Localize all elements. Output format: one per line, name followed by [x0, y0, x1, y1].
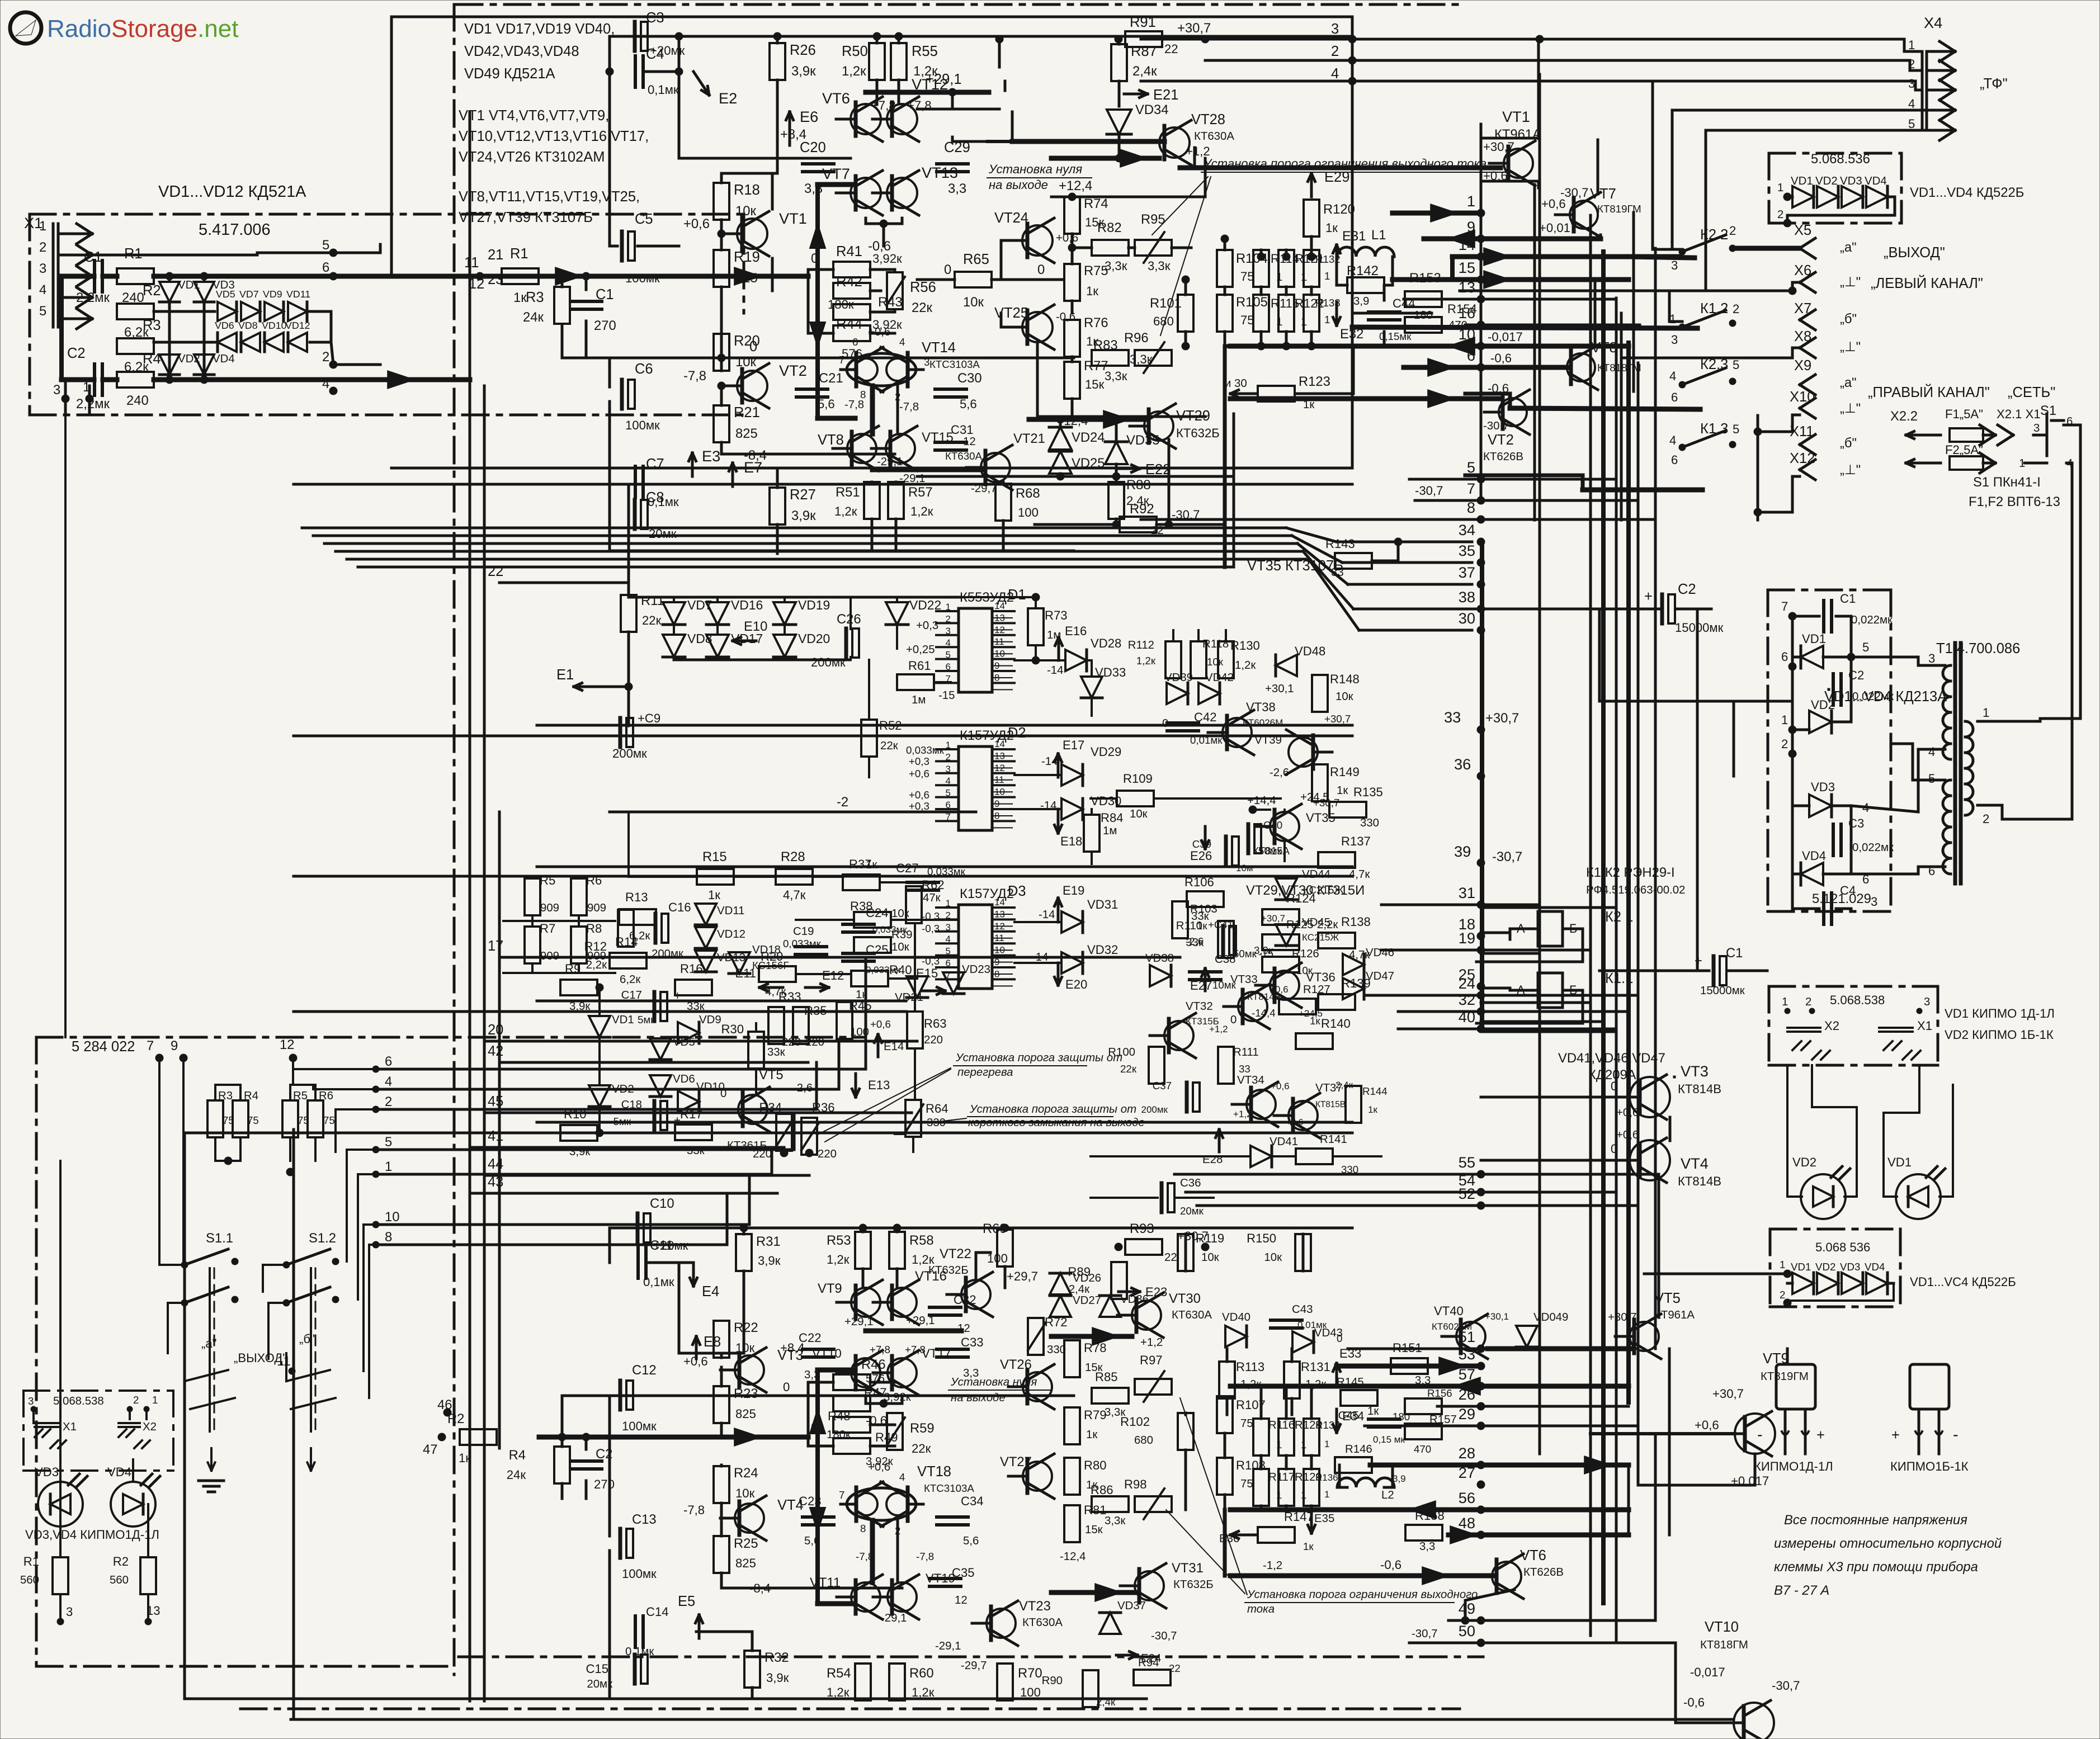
svg-text:21: 21	[488, 247, 503, 263]
wire trunk x812 dash-dot	[453, 4, 456, 1675]
svg-text:VD1: VD1	[1887, 1155, 1912, 1169]
transistor VT14 dual	[847, 353, 916, 386]
transistor VT4	[735, 1504, 764, 1533]
svg-text:22: 22	[1169, 1662, 1181, 1674]
svg-text:100: 100	[1020, 1685, 1041, 1699]
svg-text:1к: 1к	[1086, 1429, 1098, 1441]
svg-text:55: 55	[1459, 1154, 1475, 1171]
svg-text:VD9: VD9	[699, 1014, 721, 1026]
wire VT1 collector	[771, 173, 774, 209]
svg-text:C15: C15	[586, 1662, 608, 1676]
diode VD32	[1061, 952, 1083, 974]
svg-text:75: 75	[323, 1114, 335, 1126]
svg-text:„ТФ": „ТФ"	[1980, 76, 2008, 92]
svg-text:Е1: Е1	[556, 667, 574, 683]
wire bottom rail y2196	[610, 1227, 1352, 1230]
resistor R30	[748, 1032, 764, 1069]
svg-text:+0,6: +0,6	[683, 1354, 708, 1368]
svg-text:680: 680	[1153, 314, 1174, 328]
svg-text:75: 75	[1240, 270, 1254, 283]
wire trunk x840	[469, 112, 471, 1701]
transistor VT29	[1144, 412, 1173, 441]
wire trunk x2867 thick	[1601, 252, 1606, 1603]
wire row VD6-VD12	[154, 341, 215, 344]
capacitor C44	[1368, 310, 1400, 314]
svg-text:7: 7	[946, 811, 951, 822]
transistor VT6 power	[1492, 1562, 1521, 1591]
pot R97	[1135, 1379, 1172, 1395]
wire bus band B	[313, 535, 1292, 537]
svg-text:+30,1: +30,1	[1265, 683, 1294, 695]
svg-text:R28: R28	[781, 849, 805, 864]
svg-text:49: 49	[1459, 1600, 1475, 1617]
diode VD23	[943, 972, 964, 994]
svg-text:R141: R141	[1320, 1133, 1347, 1146]
svg-text:VT7: VT7	[822, 165, 850, 182]
svg-text:10к: 10к	[1296, 965, 1313, 976]
resistor R139	[1318, 994, 1355, 1010]
svg-text:36: 36	[1454, 755, 1471, 773]
wire 2b line	[376, 1108, 817, 1111]
svg-text:-: -	[1953, 1426, 1959, 1444]
wire x1214 b	[678, 1263, 681, 1353]
svg-text:S1.2: S1.2	[309, 1231, 336, 1246]
svg-text:5: 5	[39, 304, 46, 319]
svg-text:1: 1	[1983, 706, 1989, 720]
resistor R132	[1304, 250, 1319, 287]
bus +29,1	[866, 90, 989, 95]
svg-text:Е35: Е35	[1314, 1513, 1334, 1525]
svg-text:VD41,VD46,VD47: VD41,VD46,VD47	[1558, 1051, 1665, 1066]
svg-text:0,022мк: 0,022мк	[1852, 842, 1894, 854]
divider y2007	[537, 1121, 1352, 1124]
svg-text:VT40: VT40	[1434, 1304, 1464, 1318]
svg-text:22к: 22к	[642, 613, 662, 627]
inductor L2	[1337, 1478, 1394, 1487]
pot R96	[1135, 350, 1172, 366]
wire array cols mid	[1260, 1456, 1263, 1469]
arrow E20	[1057, 963, 1060, 985]
resistor R114	[1253, 250, 1269, 287]
resistor R53	[855, 1232, 871, 1269]
svg-text:R156: R156	[1427, 1387, 1452, 1399]
resistor R28	[776, 869, 813, 885]
svg-text:S1.1: S1.1	[206, 1231, 233, 1246]
svg-text:2: 2	[1777, 209, 1783, 221]
wire diode row top	[629, 596, 961, 599]
svg-text:-0,6: -0,6	[1380, 1558, 1401, 1572]
svg-text:VD27: VD27	[1073, 1294, 1101, 1307]
svg-text:К157УД2: К157УД2	[960, 728, 1014, 743]
diode VD2 b	[1817, 1273, 1838, 1294]
svg-text:VD6: VD6	[673, 1073, 695, 1085]
svg-text:5,6: 5,6	[960, 397, 977, 411]
transistor VT11	[851, 1582, 880, 1612]
svg-text:КИПМО1Д-1Л: КИПМО1Д-1Л	[1754, 1459, 1833, 1473]
diode VD6	[218, 333, 237, 352]
svg-text:X2.1 X1: X2.1 X1	[1997, 407, 2041, 421]
resistor R41	[833, 262, 870, 277]
wire bottom right links	[1627, 1465, 1630, 1535]
wire tap5	[1409, 478, 1616, 481]
svg-text:C43: C43	[1292, 1303, 1313, 1316]
svg-text:-29,1: -29,1	[935, 1640, 961, 1652]
resistor R91	[1125, 31, 1162, 47]
svg-text:C8: C8	[646, 490, 664, 505]
svg-text:29: 29	[1459, 1405, 1475, 1423]
svg-text:VD9: VD9	[263, 289, 282, 300]
resistor R52	[861, 720, 877, 757]
resistor R6 75	[308, 1100, 323, 1137]
diode VD1	[1792, 186, 1814, 207]
svg-text:100: 100	[1018, 505, 1039, 519]
resistor R77	[1064, 362, 1080, 399]
arrow E24	[1116, 1654, 1138, 1657]
svg-text:6: 6	[946, 661, 951, 672]
svg-text:R117: R117	[1268, 1471, 1295, 1483]
svg-text:R3: R3	[218, 1090, 233, 1102]
svg-text:-2: -2	[837, 795, 848, 810]
svg-text:RadioStorage.net: RadioStorage.net	[47, 15, 238, 42]
resistor R29	[759, 966, 796, 982]
svg-text:VT1 VT4,VT6,VT7,VT9,: VT1 VT4,VT6,VT7,VT9,	[459, 108, 609, 124]
transistor VT30	[1132, 1301, 1161, 1330]
diode VD11	[288, 302, 307, 321]
svg-text:С38: С38	[1215, 953, 1235, 966]
wire into box536	[1644, 1273, 1787, 1275]
transistor VT8	[847, 434, 876, 463]
svg-text:VD4: VD4	[1865, 1261, 1885, 1273]
diode VD5	[218, 302, 237, 321]
svg-text:R138: R138	[1341, 915, 1371, 929]
transistor VT26	[1023, 1372, 1052, 1401]
svg-text:VT14: VT14	[922, 340, 956, 356]
svg-text:-30,7: -30,7	[1492, 849, 1522, 864]
svg-text:VD42,VD43,VD48: VD42,VD43,VD48	[464, 44, 579, 59]
wire bottom line 2	[291, 1718, 1734, 1721]
svg-text:+0,6: +0,6	[1616, 1129, 1639, 1141]
wire tap16	[1465, 324, 1640, 327]
svg-text:4: 4	[899, 336, 905, 348]
svg-text:VT25: VT25	[994, 305, 1028, 321]
svg-text:2: 2	[1781, 737, 1788, 751]
svg-text:„⊥": „⊥"	[1840, 401, 1861, 416]
svg-text:14: 14	[1459, 236, 1475, 253]
svg-text:R146: R146	[1345, 1443, 1372, 1456]
svg-text:R140: R140	[1321, 1017, 1351, 1031]
wire trunk x2648	[1480, 124, 1483, 500]
svg-text:VD4: VD4	[1865, 175, 1887, 187]
bus 56	[1230, 1508, 1629, 1513]
wire x1090 down	[608, 72, 611, 246]
svg-text:R131: R131	[1301, 1360, 1330, 1374]
wire riser 1420	[793, 1113, 796, 1150]
transistor VT16	[888, 1288, 917, 1317]
svg-text:R76: R76	[1084, 315, 1108, 330]
arrow E23	[1119, 1291, 1140, 1293]
svg-text:C2: C2	[1678, 582, 1696, 597]
transistor VT39	[1289, 738, 1318, 767]
wire bottom-left risers	[64, 415, 67, 1037]
wire 45 line	[376, 1108, 537, 1110]
divider y2026	[185, 1132, 1352, 1135]
capacitor C29	[937, 162, 968, 166]
svg-text:VD42: VD42	[1205, 672, 1234, 684]
svg-text:VD32: VD32	[1087, 943, 1118, 957]
diode VD30	[1061, 798, 1083, 820]
svg-text:3: 3	[946, 626, 951, 636]
resistor R93	[1125, 1239, 1162, 1255]
svg-text:100мк: 100мк	[625, 418, 660, 432]
wire 50 line	[1409, 1642, 1616, 1645]
wire VT9 emitter	[1638, 1454, 1755, 1485]
svg-text:R82: R82	[1097, 220, 1122, 235]
svg-text:Е18: Е18	[1060, 834, 1082, 848]
wire VT20 net	[998, 39, 1001, 67]
svg-text:VD10: VD10	[262, 320, 287, 331]
svg-text:-1,2: -1,2	[1263, 1560, 1282, 1572]
svg-text:24к: 24к	[523, 310, 544, 325]
svg-text:R26: R26	[790, 42, 816, 58]
svg-text:R65: R65	[963, 252, 989, 267]
pot R72	[1028, 1318, 1044, 1355]
svg-text:-7,8: -7,8	[683, 1503, 705, 1517]
svg-text:R54: R54	[827, 1666, 851, 1681]
svg-text:E21: E21	[1153, 87, 1178, 103]
transistor VT40	[1456, 1322, 1485, 1351]
svg-text:909: 909	[587, 902, 606, 914]
svg-text:„ЛЕВЫЙ КАНАЛ": „ЛЕВЫЙ КАНАЛ"	[1871, 275, 1983, 291]
resistor R31	[736, 1234, 752, 1271]
svg-text:3,9: 3,9	[1353, 295, 1369, 308]
svg-text:2: 2	[1331, 44, 1339, 59]
wire X1 pin2 to node5	[78, 253, 333, 255]
capacitor C15	[633, 1655, 637, 1684]
diode VD1	[159, 282, 180, 302]
svg-text:5: 5	[1733, 422, 1739, 436]
svg-text:„а": „а"	[201, 1336, 217, 1350]
svg-text:-7,8: -7,8	[916, 1551, 934, 1562]
transistor VT9	[851, 1288, 880, 1317]
svg-text:Е15: Е15	[916, 966, 938, 980]
svg-text:-0,017: -0,017	[1488, 330, 1523, 344]
resistor R32	[744, 1651, 760, 1688]
resistor R57	[888, 482, 904, 519]
svg-text:C10: C10	[650, 1196, 674, 1211]
wire bottom rail y2026k	[780, 1149, 788, 1157]
svg-text:VD6: VD6	[215, 320, 234, 331]
diode VD34	[1107, 110, 1131, 134]
svg-text:В7 - 27 А: В7 - 27 А	[1774, 1583, 1829, 1598]
resistor R13	[619, 909, 656, 925]
svg-text:-: -	[1757, 1426, 1763, 1444]
svg-text:РФ4.519.063-00.02: РФ4.519.063-00.02	[1586, 884, 1685, 896]
wire 3 line	[1141, 38, 1904, 41]
svg-text:12: 12	[994, 921, 1005, 932]
capacitor C39	[1224, 837, 1228, 866]
svg-text:R97: R97	[1140, 1353, 1163, 1367]
svg-text:VT6: VT6	[1520, 1548, 1546, 1563]
svg-text:R31: R31	[756, 1234, 781, 1249]
svg-text:C22: C22	[799, 1331, 822, 1345]
svg-text:7: 7	[1467, 480, 1475, 497]
svg-text:4: 4	[899, 1471, 905, 1483]
diode VD10	[678, 1091, 699, 1112]
svg-text:3: 3	[1908, 77, 1915, 91]
capacitor C10	[636, 1213, 640, 1242]
svg-text:240: 240	[126, 393, 149, 408]
bus tap9	[1424, 237, 1601, 242]
svg-text:R124: R124	[1286, 891, 1316, 905]
svg-text:16: 16	[1459, 304, 1475, 322]
wire trunk x2650 thick	[1480, 542, 1484, 1029]
svg-text:C33: C33	[961, 1335, 984, 1349]
svg-text:VD1 VD17,VD19 VD40,: VD1 VD17,VD19 VD40,	[464, 21, 615, 37]
diode VD2	[1817, 186, 1838, 207]
svg-text:13: 13	[1459, 278, 1475, 296]
resistor R58	[889, 1232, 905, 1269]
svg-text:470: 470	[1414, 1443, 1431, 1455]
wire row VD5-VD11	[154, 310, 215, 313]
capacitor C2 psu	[1832, 674, 1835, 705]
capacitor C1 15000	[1712, 956, 1716, 985]
svg-text:R74: R74	[1084, 196, 1108, 211]
svg-text:C21: C21	[819, 371, 843, 386]
svg-text:7: 7	[1781, 599, 1788, 613]
svg-text:37: 37	[1459, 564, 1475, 581]
svg-text:12: 12	[280, 1037, 294, 1052]
capacitor C37	[1185, 1083, 1189, 1112]
wire bus 55	[1174, 1173, 1629, 1176]
wire tap31	[1381, 904, 1540, 906]
wire 5b line	[376, 1149, 794, 1151]
svg-text:2: 2	[1908, 57, 1915, 71]
svg-text:VT6: VT6	[822, 89, 850, 107]
transistor VT13	[887, 178, 917, 208]
wire thick input to R network	[800, 274, 808, 279]
svg-text:КТ6026М: КТ6026М	[1243, 717, 1283, 728]
svg-text:33: 33	[1239, 1063, 1250, 1075]
svg-text:180: 180	[1414, 309, 1433, 322]
resistor R1	[117, 268, 154, 284]
transistor VT12	[887, 104, 917, 134]
transistor VT24	[1022, 225, 1053, 256]
svg-text:5,6: 5,6	[963, 1535, 979, 1547]
resistor R140	[1296, 1033, 1333, 1049]
svg-text:R81: R81	[1084, 1503, 1107, 1517]
resistor R127	[1279, 999, 1316, 1014]
svg-text:R23: R23	[734, 1386, 758, 1401]
svg-text:R150: R150	[1247, 1231, 1276, 1245]
svg-text:R1: R1	[23, 1554, 39, 1568]
resistor R60	[889, 1664, 905, 1700]
svg-text:-30,7: -30,7	[1772, 1679, 1800, 1693]
svg-text:R59: R59	[910, 1421, 935, 1436]
svg-text:5.068.536: 5.068.536	[1811, 152, 1870, 167]
wire trunk x2912 thick	[1626, 343, 1631, 1402]
svg-text:1: 1	[1908, 38, 1915, 52]
wire X4 feed 233	[1706, 129, 1936, 132]
inductor L1	[1337, 247, 1394, 257]
diode VD31	[1061, 911, 1083, 933]
svg-text:R75: R75	[1084, 263, 1108, 278]
svg-text:42: 42	[488, 1043, 503, 1059]
resistor R131	[1284, 1362, 1300, 1398]
svg-text:180: 180	[1393, 1411, 1410, 1423]
capacitor C4 psu	[1822, 893, 1825, 924]
arrow E11	[759, 986, 783, 989]
diode VD19	[773, 602, 796, 625]
capacitor C4	[634, 56, 637, 87]
capacitor C13	[619, 1529, 622, 1558]
svg-text:VT38: VT38	[1246, 700, 1276, 714]
transistor VT23	[987, 1609, 1016, 1638]
wire VT5 collector	[1658, 1174, 1660, 1317]
svg-text:VD33: VD33	[1095, 665, 1126, 679]
svg-text:+0,6: +0,6	[868, 326, 890, 338]
resistor R149	[1312, 764, 1328, 801]
svg-text:4: 4	[1908, 97, 1915, 111]
wire k22 bus14	[1629, 257, 1695, 258]
resistor R38	[854, 912, 891, 928]
svg-text:E6: E6	[800, 108, 818, 125]
svg-text:D3: D3	[1008, 883, 1026, 899]
svg-text:+7,8: +7,8	[905, 1344, 926, 1355]
svg-text:КТ630А: КТ630А	[945, 450, 982, 462]
resistor R84	[1084, 815, 1099, 852]
resistor R122	[1278, 295, 1294, 332]
svg-text:3: 3	[946, 922, 951, 933]
svg-text:+30,1: +30,1	[1485, 1311, 1509, 1322]
resistor R55	[891, 43, 907, 80]
svg-text:1: 1	[946, 898, 951, 909]
svg-text:КИПМО1Б-1К: КИПМО1Б-1К	[1890, 1459, 1969, 1473]
capacitor C12	[619, 1381, 622, 1410]
svg-text:R24: R24	[734, 1466, 758, 1481]
wire R131 col	[1291, 1349, 1294, 1362]
svg-text:12: 12	[994, 625, 1005, 635]
svg-text:VT32: VT32	[1186, 1000, 1213, 1013]
wire top frame line	[391, 16, 1352, 18]
resistor R54	[855, 1664, 871, 1700]
resistor R130	[1218, 641, 1234, 678]
wire rail y3038b	[608, 1669, 611, 1699]
resistor R100	[1149, 1047, 1164, 1084]
bus VT2 base	[1230, 396, 1499, 401]
LED box 5.068.538 right	[1769, 985, 1938, 988]
svg-text:VD41: VD41	[1270, 1136, 1298, 1148]
svg-text:C27: C27	[896, 861, 919, 875]
resistor R44	[833, 325, 870, 341]
resistor R121	[1278, 250, 1294, 287]
wire trunk x2844	[1589, 215, 1592, 1636]
svg-text:Все постоянные напряжения: Все постоянные напряжения	[1784, 1513, 1967, 1528]
svg-text:измерены относительно корпус: измерены относительно корпусной	[1774, 1536, 2002, 1551]
svg-text:10к: 10к	[891, 941, 910, 953]
svg-text:R149: R149	[1330, 765, 1360, 779]
capacitor C17	[653, 992, 657, 1021]
svg-text:VT30: VT30	[1169, 1291, 1201, 1306]
svg-text:VD37: VD37	[1117, 1600, 1146, 1612]
svg-text:Установка порога ограничения в: Установка порога ограничения выходного т…	[1203, 157, 1486, 171]
capacitor C1	[93, 261, 96, 292]
svg-text:VD4: VD4	[107, 1465, 131, 1479]
svg-text:R6: R6	[319, 1090, 333, 1102]
wire 17 line	[499, 956, 1180, 959]
svg-text:R5: R5	[540, 873, 555, 887]
wire y938	[1035, 523, 1116, 526]
svg-text:22: 22	[1164, 1251, 1177, 1264]
